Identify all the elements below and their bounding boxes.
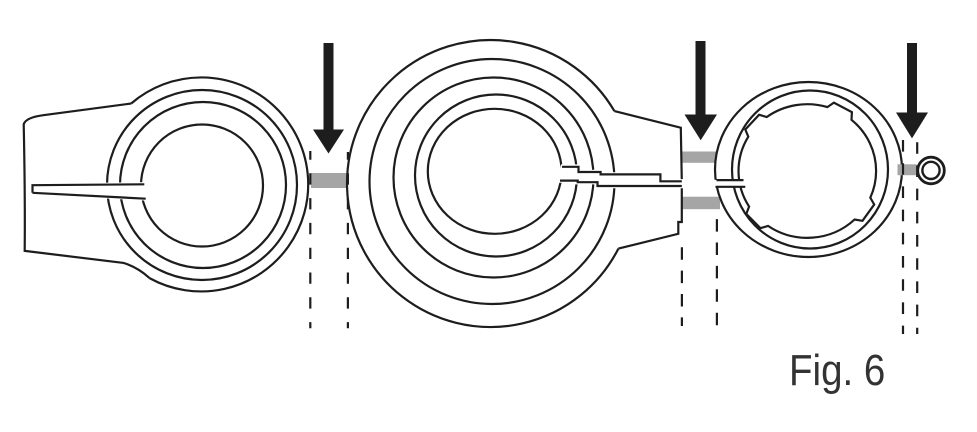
arrow A2 <box>685 41 718 140</box>
gasket G3 (middle junction lower grey pad) <box>682 197 721 210</box>
gasket G4 (right junction grey pad) <box>898 164 917 175</box>
center component circle c5 <box>428 109 562 234</box>
center component channel erase <box>559 166 684 187</box>
dashed line pair at left junction <box>309 151 311 328</box>
left component slot erase <box>32 183 147 199</box>
gasket G1 (left junction grey pad) <box>311 173 348 188</box>
right ring inner ellipse <box>732 91 888 249</box>
dashed line pair at right junction <box>903 140 917 334</box>
gasket G2 (middle junction upper grey pad) <box>682 152 717 163</box>
left component circle c3 <box>120 102 286 268</box>
center component outer circle arc <box>347 40 618 327</box>
knob outer circle <box>918 157 945 184</box>
left component outer circle arc <box>131 77 308 291</box>
right ring slot edges <box>716 180 746 187</box>
caption Fig. 6 <box>789 346 885 396</box>
left component slot edges <box>33 184 146 198</box>
arrow A1 <box>313 43 344 154</box>
left component inner circle <box>141 125 263 247</box>
left component circle c2 <box>107 90 297 280</box>
dashed line pair at middle junction <box>681 247 683 326</box>
right ring outer ellipse <box>715 82 902 257</box>
center component circle c3 <box>394 78 594 278</box>
center component spout right cap <box>618 186 681 248</box>
center component circle c2 <box>370 59 615 304</box>
right ring notched bayonet circle <box>739 103 877 238</box>
knob inner circle <box>922 162 939 179</box>
arrow A3 <box>896 43 928 138</box>
right ring slot erase <box>715 181 746 186</box>
center component spout top edge <box>614 111 681 181</box>
left component body outline <box>24 104 150 279</box>
center component circle c4 <box>415 95 577 257</box>
center component channel stepped edges <box>560 167 682 186</box>
